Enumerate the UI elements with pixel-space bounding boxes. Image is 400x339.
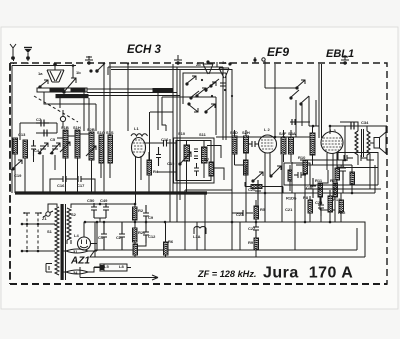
svg-text:C30: C30: [306, 185, 314, 190]
mains cord dashed b: [37, 213, 39, 251]
wire x345 vertical: [344, 126, 346, 160]
resistor R5: [254, 206, 259, 219]
svg-text:L8: L8: [119, 264, 124, 269]
wire S10 leads: [187, 140, 205, 193]
output transformer primary: [355, 131, 358, 155]
band switch bar: [153, 89, 173, 92]
trimmer caps IF1: [194, 149, 198, 159]
svg-text:R4: R4: [153, 169, 159, 174]
svg-text:3a: 3a: [222, 60, 227, 65]
coil S1K: [75, 130, 80, 158]
wire R21 leads: [134, 242, 136, 257]
wire grid cap EF9 b: [274, 64, 276, 137]
wire EF9 cathode down: [258, 153, 265, 222]
resistor R12: [333, 183, 338, 197]
capacitor C24: [194, 163, 199, 176]
tube EF9 legs: [265, 153, 270, 175]
svg-text:31: 31: [73, 249, 78, 254]
volume pot arrow: [252, 172, 263, 182]
loop antenna funnel: [47, 63, 64, 82]
resistor R1a: [23, 140, 28, 158]
svg-text:R9: R9: [248, 240, 254, 245]
svg-text:L 2: L 2: [264, 127, 270, 132]
wire right column: [305, 170, 343, 210]
coil S2B: [89, 132, 94, 160]
tube EBL1 legs: [327, 151, 338, 190]
coil L3A: [194, 227, 206, 229]
wiper stem: [62, 110, 64, 128]
wire loop b: [108, 67, 223, 222]
terminal T5: [254, 57, 256, 63]
mains rail bottom: [22, 250, 53, 252]
svg-text:R92: R92: [338, 210, 346, 215]
svg-text:C17: C17: [77, 183, 85, 188]
capacitor C49: [103, 203, 109, 218]
wire bus join: [90, 222, 95, 257]
svg-text:L4: L4: [74, 233, 79, 238]
capacitor C33: [358, 155, 367, 161]
wire antenna feed: [12, 66, 76, 194]
coil S10: [184, 145, 190, 161]
bus return lower: [95, 256, 365, 258]
wire second row: [36, 132, 57, 134]
coil S11: [202, 147, 208, 163]
wire mid vertical x305: [304, 160, 306, 222]
terminal T3: [85, 56, 93, 64]
wire R16 lead: [245, 175, 247, 193]
mains rail top: [22, 223, 53, 225]
wire loop c: [111, 69, 232, 200]
switch arm 3: [188, 103, 198, 112]
svg-text:C49: C49: [100, 198, 108, 203]
svg-text:C34: C34: [361, 120, 369, 125]
wire x352 vertical: [351, 165, 353, 185]
tone pot arrow: [270, 166, 281, 177]
resistor R10: [303, 160, 308, 174]
wire mid vertical x282: [281, 155, 283, 222]
svg-text:R12: R12: [330, 178, 338, 183]
svg-text:S1: S1: [47, 229, 53, 234]
mains cord dashed a: [26, 213, 28, 251]
capacitor C31: [340, 160, 346, 180]
svg-text:C20: C20: [248, 187, 256, 192]
svg-text:L5: L5: [104, 264, 109, 269]
wire highway y185: [310, 184, 378, 186]
trimmer C5: [50, 143, 60, 154]
capacitor C16: [164, 140, 177, 147]
wire highway y165: [296, 164, 352, 166]
wire x246 down: [245, 193, 247, 222]
capacitor C23: [238, 210, 253, 216]
svg-text:C5: C5: [50, 137, 56, 142]
svg-text:S11: S11: [199, 132, 207, 137]
wire x170 long: [169, 139, 171, 222]
capacitor C20: [255, 180, 261, 200]
capacitor C2: [119, 222, 125, 250]
svg-text:C16: C16: [161, 137, 169, 142]
svg-text:1a: 1a: [38, 71, 43, 76]
capacitor C8: [44, 130, 47, 137]
wire x205 down: [204, 193, 206, 250]
resistor R7: [209, 162, 214, 176]
wire L3 leads: [313, 126, 346, 165]
svg-text:C22: C22: [248, 226, 256, 231]
IF can box inner: [176, 141, 211, 181]
capacitor trimmer between: [248, 141, 259, 147]
wire x216: [215, 97, 217, 135]
wire highway y160: [300, 159, 345, 161]
wire earth stub dashed: [27, 59, 29, 64]
svg-text:S2: S2: [71, 212, 77, 217]
tube ECH3 legs: [136, 156, 142, 205]
wire highway y189: [305, 188, 381, 190]
svg-text:R10: R10: [298, 155, 306, 160]
svg-text:AZ1: AZ1: [70, 256, 90, 267]
wire IF staircase a: [207, 146, 221, 159]
switch arm 7: [290, 90, 299, 99]
svg-text:34: 34: [73, 270, 78, 275]
svg-text:ECH 3: ECH 3: [127, 44, 161, 56]
coil arrow S2B: [86, 146, 96, 156]
coil L1: [131, 134, 148, 136]
svg-text:C31: C31: [337, 163, 345, 168]
svg-text:S2H: S2H: [242, 130, 250, 135]
wire switch verticals: [223, 67, 232, 155]
mech coupling dashed: [34, 96, 78, 122]
osc trimmer arrow: [205, 82, 226, 91]
wire row y138: [57, 134, 89, 138]
wire IF2 leads: [235, 130, 247, 165]
bus B plus: [85, 221, 363, 223]
coil S2H: [244, 136, 249, 153]
coil S8D: [232, 136, 237, 154]
resistor R15: [350, 172, 355, 184]
svg-text:C50: C50: [87, 198, 95, 203]
coil S4F: [281, 137, 286, 154]
svg-text:Jura 170 A: Jura 170 A: [263, 265, 353, 282]
filament winding 34: [61, 268, 100, 275]
switch arm 9: [300, 96, 309, 105]
wire top feed y205: [110, 204, 135, 207]
svg-text:1b: 1b: [76, 70, 81, 75]
wire C16 links: [50, 179, 95, 193]
wire y196: [245, 182, 283, 193]
coil L3: [310, 133, 315, 155]
svg-text:R5: R5: [260, 207, 266, 212]
wire x185: [184, 190, 186, 250]
coil S1Q: [99, 135, 104, 163]
coil arrow S1B: [60, 142, 70, 152]
svg-text:Z1: Z1: [42, 216, 47, 221]
wire EBL1 grid: [319, 134, 322, 138]
svg-text:S10: S10: [178, 131, 186, 136]
wire screen lead: [109, 64, 111, 138]
svg-text:C19: C19: [14, 173, 22, 178]
ferrite coil bar2: [56, 95, 88, 98]
capacitor C22: [253, 219, 259, 238]
wire IF3 leads: [284, 130, 292, 162]
trimmer arrow left: [38, 80, 48, 88]
wire B plus from AZ1: [96, 222, 98, 251]
wire feed drop: [72, 66, 74, 79]
switch arm 8: [296, 80, 305, 89]
diode load box: [284, 163, 310, 185]
wire r14 leads: [337, 160, 352, 193]
tube AZ1 anodes: [80, 240, 88, 248]
capacitor C3: [31, 140, 36, 156]
capacitor C30: [310, 178, 316, 198]
earth terminal: [24, 48, 32, 60]
wire return right vertical b: [363, 222, 365, 257]
tone network box: [337, 153, 378, 168]
wire x292: [291, 162, 293, 193]
tube EBL1 envelope: [321, 132, 343, 154]
wire R6 leads: [165, 222, 167, 257]
wire L3A leads: [194, 228, 206, 234]
resistor R14: [335, 168, 340, 180]
resistor R13: [328, 196, 333, 212]
wire C29 stub: [290, 121, 310, 123]
resistor R21: [133, 244, 138, 255]
wire grid cap EF9 a: [265, 61, 297, 88]
wire transformer top leads: [48, 204, 88, 251]
wire speaker joins: [370, 126, 386, 143]
svg-text:C4: C4: [34, 148, 40, 153]
output transformer core: [362, 129, 364, 157]
svg-text:EF9: EF9: [267, 45, 289, 59]
tube ECH3 electrodes: [133, 140, 144, 152]
resistor R4: [147, 160, 152, 175]
diode load wires: [246, 165, 258, 210]
resistor R20: [133, 228, 138, 242]
switch arm 1: [186, 76, 196, 85]
svg-text:C1: C1: [98, 235, 104, 240]
switch arm 5: [190, 91, 199, 99]
harness y95.5: [88, 95, 180, 97]
wires left column to bus: [15, 154, 110, 193]
capacitor C15: [156, 147, 161, 166]
wire lamp vertical: [80, 267, 100, 278]
svg-text:S1H: S1H: [73, 125, 81, 130]
capacitor C12: [143, 224, 149, 243]
junction dot feed: [72, 64, 75, 67]
resistor R8: [308, 200, 313, 213]
svg-text:L3A: L3A: [193, 234, 201, 239]
capacitor C50: [91, 203, 97, 218]
wire R2 bottom: [134, 220, 136, 228]
grid cap terminal EF9: [262, 58, 265, 61]
wire loop a: [150, 64, 173, 193]
dashed border left heavy: [9, 63, 11, 284]
svg-text:C28: C28: [315, 200, 323, 205]
svg-text:R6: R6: [168, 239, 174, 244]
svg-text:S1B: S1B: [61, 125, 69, 130]
wire x375 vertical: [370, 154, 378, 193]
wire y172 link: [157, 171, 176, 173]
svg-text:S8D: S8D: [230, 130, 238, 135]
svg-text:L 3: L 3: [330, 128, 336, 133]
switch arm 4: [205, 104, 215, 113]
wire R20 C12 join: [135, 242, 146, 250]
wire y97 cross: [162, 96, 216, 98]
dashed border bottom heavy: [10, 283, 387, 285]
filament winding 31: [61, 249, 97, 253]
wire C34 top link: [345, 125, 387, 127]
switch wiper circle: [60, 116, 65, 121]
terminal T4: [174, 55, 182, 64]
capacitor C17 bottom: [73, 176, 88, 182]
wire return right vertical a: [356, 228, 358, 250]
wire secondary lead: [67, 240, 71, 244]
coil tap wires: [44, 92, 96, 131]
bus return upper: [95, 249, 357, 251]
coil S1A: [13, 138, 18, 154]
wire highway y193: [332, 192, 375, 194]
svg-text:C2: C2: [116, 235, 122, 240]
coil S1B: [63, 130, 68, 158]
antenna terminal: [10, 44, 16, 59]
scale lamp arrow: [80, 275, 158, 280]
bracket symbol: [46, 264, 52, 273]
wire top left row: [20, 123, 57, 140]
wire L1 feed: [127, 64, 129, 131]
wire plate ECH3: [145, 142, 163, 144]
wire mid vertical x295: [294, 193, 296, 250]
capacitor C7: [36, 120, 49, 127]
svg-text:S1S: S1S: [106, 130, 114, 135]
wire R4: [148, 152, 150, 193]
wire transformer leads: [340, 122, 374, 165]
bus chassis thin extension: [207, 192, 332, 194]
wire R19 leads: [340, 193, 342, 222]
wire caps join: [88, 204, 110, 222]
resistor R18: [288, 170, 292, 181]
junction dots top border: [103, 62, 105, 64]
osc funnel right: [219, 63, 231, 78]
capacitor C16 bottom: [56, 176, 73, 182]
wire bus vertical left: [14, 175, 16, 193]
fuse Z1: [43, 211, 53, 217]
tube EF9 electrodes: [261, 140, 274, 149]
tube EF9 envelope: [259, 135, 277, 153]
svg-text:S1Q: S1Q: [97, 130, 105, 135]
resistor R6: [164, 242, 169, 255]
capacitor C32: [344, 155, 353, 161]
svg-text:EBL1: EBL1: [326, 48, 354, 60]
svg-text:R7: R7: [204, 157, 210, 162]
harness y92.5: [87, 92, 177, 94]
capacitor C34: [351, 123, 354, 130]
switch arm 2: [196, 88, 206, 97]
output transformer secondary: [367, 131, 370, 155]
IF can box outer: [174, 138, 215, 183]
svg-text:R20: R20: [138, 230, 146, 235]
wire IF staircase b: [211, 168, 224, 180]
tuning arrow: [63, 78, 76, 93]
capacitor C29: [292, 119, 295, 125]
resistor R11: [318, 183, 323, 197]
wire mid vertical x232: [231, 155, 233, 250]
IF tuning arrow: [179, 152, 191, 165]
tube EBL1 electrodes: [322, 138, 342, 150]
wire M cluster: [232, 200, 256, 257]
capacitor C1: [101, 222, 107, 250]
svg-text:C7: C7: [36, 117, 42, 122]
wire grid EBL1 pair: [319, 64, 322, 134]
capacitor C26: [294, 172, 306, 178]
svg-text:R1Db: R1Db: [286, 196, 297, 201]
power transformer core: [61, 204, 66, 280]
svg-text:C9: C9: [148, 215, 154, 220]
plug pins: [24, 212, 41, 214]
tube ECH3 envelope: [132, 138, 146, 158]
svg-text:C23: C23: [236, 212, 244, 217]
svg-text:C21: C21: [285, 207, 293, 212]
capacitor C28: [318, 197, 324, 216]
wire x316: [315, 100, 317, 126]
svg-text:R11: R11: [315, 178, 323, 183]
wire arm verticals: [296, 96, 319, 137]
wire bar leads down: [158, 92, 166, 131]
wire N cluster: [310, 190, 330, 222]
resistor R16: [244, 160, 249, 175]
svg-text:C16: C16: [57, 183, 65, 188]
osc funnel left: [203, 61, 217, 74]
coil S4A: [289, 137, 294, 154]
terminal T6: [341, 55, 349, 64]
trimmer C4: [38, 143, 48, 154]
dashed schematic border: [10, 63, 387, 284]
svg-text:R2: R2: [138, 208, 144, 213]
switch arm 1B: [90, 63, 105, 72]
svg-text:S4A: S4A: [288, 131, 296, 136]
wire x197: [196, 222, 198, 250]
resistor R2: [133, 207, 138, 220]
svg-text:R13: R13: [333, 197, 341, 202]
junction dots mains: [21, 223, 40, 253]
svg-text:C15: C15: [167, 161, 175, 166]
svg-text:ZF = 128 kHz.: ZF = 128 kHz.: [197, 269, 256, 279]
pilot lamp L8: [100, 264, 131, 271]
wire grid ECH3 link: [149, 112, 151, 160]
junction dots: [103, 192, 106, 195]
svg-text:R8: R8: [303, 195, 309, 200]
speaker: [374, 132, 386, 154]
wire right column2: [305, 198, 335, 222]
wire antenna stub dashed: [13, 59, 15, 64]
svg-text:C13: C13: [18, 132, 26, 137]
svg-text:S2B: S2B: [87, 127, 95, 132]
svg-text:L1: L1: [134, 126, 139, 131]
ferrite rod bar: [37, 88, 87, 92]
resistor R19: [339, 200, 344, 212]
harness y89: [87, 88, 173, 90]
svg-text:2b: 2b: [196, 62, 201, 67]
bus chassis thick: [15, 191, 207, 194]
trimmer C19: [11, 160, 22, 170]
wire IF line: [216, 136, 310, 138]
power transformer secondary winding: [67, 208, 71, 240]
resistor R9: [254, 238, 259, 250]
tube AZ1 envelope: [78, 237, 91, 250]
contact dots cluster: [201, 79, 233, 97]
wire mid y190: [185, 189, 232, 191]
wire AZ1 leads: [84, 222, 97, 244]
wire x240: [239, 222, 241, 250]
wire box bits: [289, 165, 291, 191]
svg-text:S4F: S4F: [279, 131, 287, 136]
wire grid lead ECH3: [103, 64, 105, 193]
